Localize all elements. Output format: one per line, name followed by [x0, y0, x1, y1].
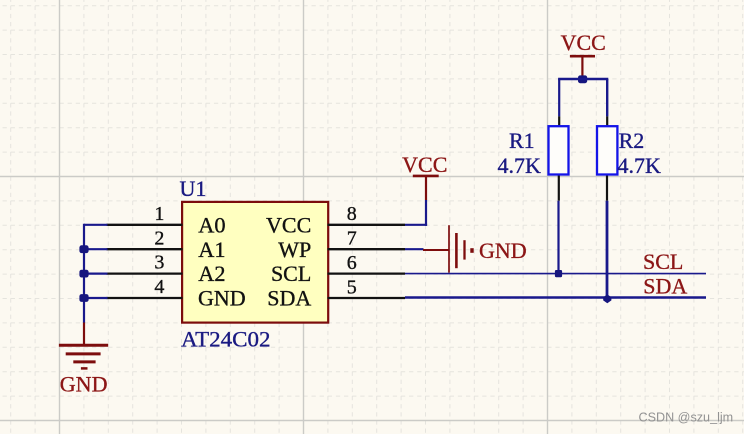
svg-text:SDA: SDA: [267, 286, 311, 311]
svg-text:GND: GND: [198, 286, 246, 311]
svg-text:SCL: SCL: [643, 249, 683, 274]
svg-text:A2: A2: [198, 261, 225, 286]
svg-text:1: 1: [154, 203, 164, 225]
svg-text:A0: A0: [198, 212, 225, 237]
svg-text:VCC: VCC: [561, 30, 606, 55]
svg-text:VCC: VCC: [266, 212, 311, 237]
svg-text:AT24C02: AT24C02: [181, 327, 271, 352]
svg-text:SCL: SCL: [271, 261, 311, 286]
svg-text:U1: U1: [180, 176, 207, 201]
svg-text:4: 4: [154, 276, 164, 298]
svg-text:R2: R2: [619, 128, 645, 153]
svg-text:4.7K: 4.7K: [498, 153, 542, 178]
svg-text:VCC: VCC: [402, 152, 447, 177]
svg-text:6: 6: [347, 252, 357, 274]
svg-text:CSDN @szu_ljm: CSDN @szu_ljm: [639, 411, 734, 425]
svg-text:3: 3: [154, 252, 164, 274]
svg-text:5: 5: [347, 276, 357, 298]
svg-text:7: 7: [347, 228, 357, 250]
svg-text:SDA: SDA: [643, 274, 687, 299]
svg-text:8: 8: [347, 203, 357, 225]
svg-text:GND: GND: [60, 371, 108, 396]
svg-text:4.7K: 4.7K: [618, 153, 662, 178]
svg-text:R1: R1: [509, 128, 535, 153]
svg-text:2: 2: [154, 227, 164, 249]
svg-text:A1: A1: [198, 237, 225, 262]
svg-text:GND: GND: [479, 238, 527, 263]
svg-text:WP: WP: [278, 237, 311, 262]
